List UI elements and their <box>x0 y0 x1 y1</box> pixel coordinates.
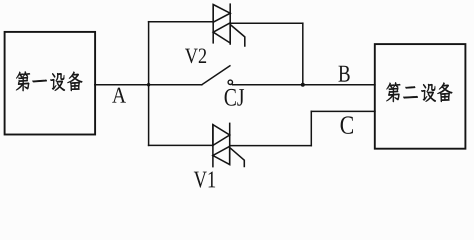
wire node B horizontal <box>303 84 375 86</box>
triac V1 <box>213 123 244 168</box>
switch CJ contact circle <box>228 80 232 84</box>
node B label <box>339 66 350 82</box>
node A label <box>112 88 126 103</box>
node C label <box>341 116 353 133</box>
wire bottom branch left <box>149 144 213 146</box>
text 第二设备 <box>386 82 452 102</box>
wire node A horizontal <box>95 84 149 86</box>
wire bottom branch right <box>230 145 312 147</box>
switch CJ blade <box>202 66 230 85</box>
junction node A dot <box>147 83 150 86</box>
triac V2 <box>213 3 245 46</box>
wire middle branch right <box>233 84 303 86</box>
wire top branch left <box>149 21 214 23</box>
switch CJ label <box>225 89 245 106</box>
device box 第一设备 <box>5 32 96 135</box>
wire top-right riser <box>302 23 304 84</box>
triac V2 label <box>185 49 206 64</box>
triac V1 label <box>194 172 215 188</box>
text 第一设备 <box>16 71 82 91</box>
wire left riser <box>148 22 150 146</box>
wire middle branch left <box>149 84 202 86</box>
device box 第二设备 <box>375 44 466 149</box>
wire top branch right <box>230 22 303 24</box>
wire node C riser <box>310 111 312 145</box>
wire node C horizontal <box>311 110 375 112</box>
junction node B dot <box>301 83 305 87</box>
